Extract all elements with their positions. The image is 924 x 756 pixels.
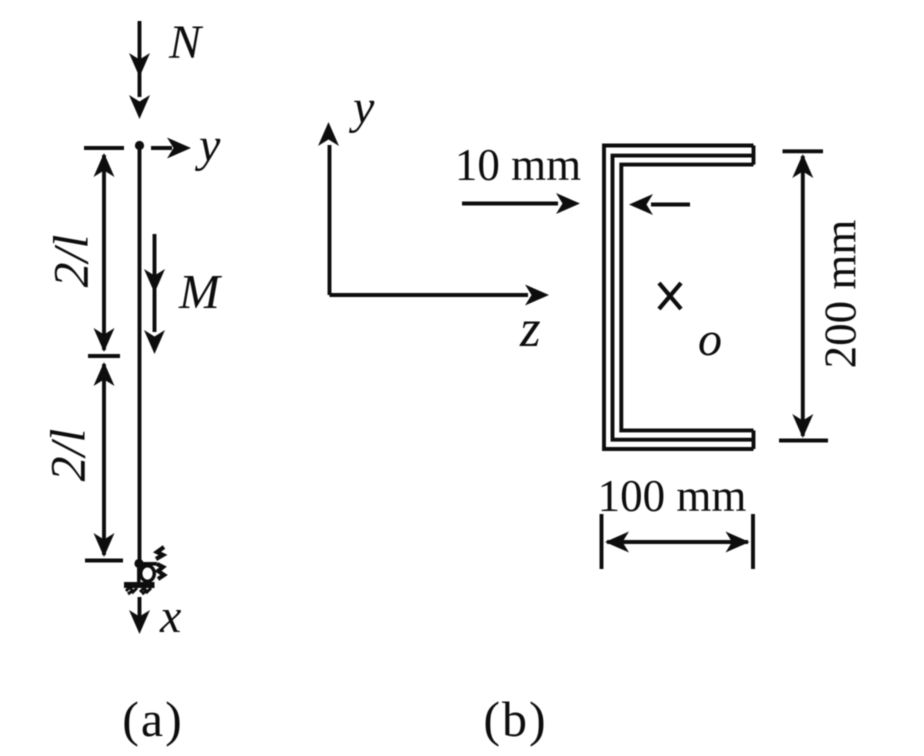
- svg-text:N: N: [168, 16, 204, 69]
- wall thickness arrowhead (inside): [629, 194, 653, 215]
- z axis shaft: [330, 293, 529, 297]
- wall thickness arrow shaft (inside): [651, 203, 690, 207]
- y axis (b) arrowhead: [318, 122, 339, 146]
- svg-text:o: o: [698, 313, 722, 366]
- svg-text:2/l: 2/l: [42, 235, 98, 288]
- svg-text:(b): (b): [483, 691, 547, 747]
- support ground line: [124, 582, 155, 588]
- force N arrow shaft: [138, 21, 142, 97]
- force N arrowhead 2: [129, 95, 150, 119]
- y axis (b) shaft: [328, 145, 332, 295]
- 100 mm dimension arrowhead right: [726, 532, 750, 553]
- dimension l/2 lower shaft: [102, 364, 106, 555]
- 100 mm dimension shaft: [607, 540, 748, 544]
- channel bottom flange tip cap: [752, 430, 756, 449]
- y axis (a) shaft: [151, 146, 172, 150]
- column member: [138, 145, 142, 562]
- 200 mm dimension top tick: [783, 149, 824, 153]
- 10 mm pointer arrowhead: [556, 193, 580, 214]
- 100 mm dimension right tick: [751, 514, 755, 569]
- support roller circle: [141, 566, 155, 582]
- svg-text:200 mm: 200 mm: [815, 220, 865, 369]
- moment M arrowhead 1: [144, 269, 165, 293]
- support scribble lower: [157, 564, 164, 579]
- 200 mm dimension arrowhead down: [792, 414, 813, 438]
- svg-text:x: x: [159, 590, 181, 643]
- 200 mm dimension arrowhead up: [792, 154, 813, 178]
- dimension l/2 upper arrowhead up: [94, 153, 115, 177]
- support scribble upper: [156, 547, 164, 559]
- y axis (a) arrowhead: [167, 138, 191, 159]
- centroid cross mark: [659, 283, 681, 309]
- dimension l/2 lower arrowhead down: [94, 533, 115, 557]
- z axis arrowhead: [525, 285, 549, 306]
- force N arrowhead 1: [129, 53, 150, 77]
- 100 mm dimension arrowhead left: [605, 532, 629, 553]
- 100 mm dimension left tick: [600, 514, 604, 569]
- dimension bottom tick: [85, 559, 123, 563]
- channel outer contour: [604, 146, 754, 450]
- dimension l/2 lower arrowhead up: [94, 362, 115, 386]
- x axis shaft: [138, 597, 142, 618]
- x axis arrowhead: [129, 610, 150, 634]
- svg-text:y: y: [348, 81, 375, 134]
- dimension l/2 upper shaft: [102, 155, 106, 350]
- dimension middle tick: [88, 354, 120, 358]
- support pin knot: [134, 559, 143, 568]
- support post: [137, 562, 141, 584]
- svg-text:y: y: [194, 119, 221, 172]
- channel inner contour: [621, 165, 753, 431]
- 200 mm dimension bottom tick: [779, 439, 828, 443]
- moment M arrowhead 2: [144, 330, 165, 354]
- dimension l/2 upper top tick: [84, 146, 124, 150]
- support ground hatch: [126, 587, 151, 594]
- 200 mm dimension shaft: [801, 156, 805, 436]
- 10 mm pointer arrow shaft: [462, 202, 558, 206]
- node dot at column top: [135, 141, 144, 150]
- dimension l/2 upper arrowhead down: [94, 328, 115, 352]
- support link bar: [139, 562, 157, 566]
- moment M arrow shaft: [153, 234, 157, 332]
- svg-text:z: z: [519, 300, 541, 358]
- channel mid contour: [613, 156, 754, 440]
- svg-text:100 mm: 100 mm: [598, 471, 747, 521]
- svg-text:10 mm: 10 mm: [455, 140, 581, 190]
- svg-text:(a): (a): [122, 691, 184, 747]
- svg-text:M: M: [178, 264, 223, 319]
- channel top flange tip cap: [752, 146, 756, 165]
- svg-text:2/l: 2/l: [39, 429, 95, 482]
